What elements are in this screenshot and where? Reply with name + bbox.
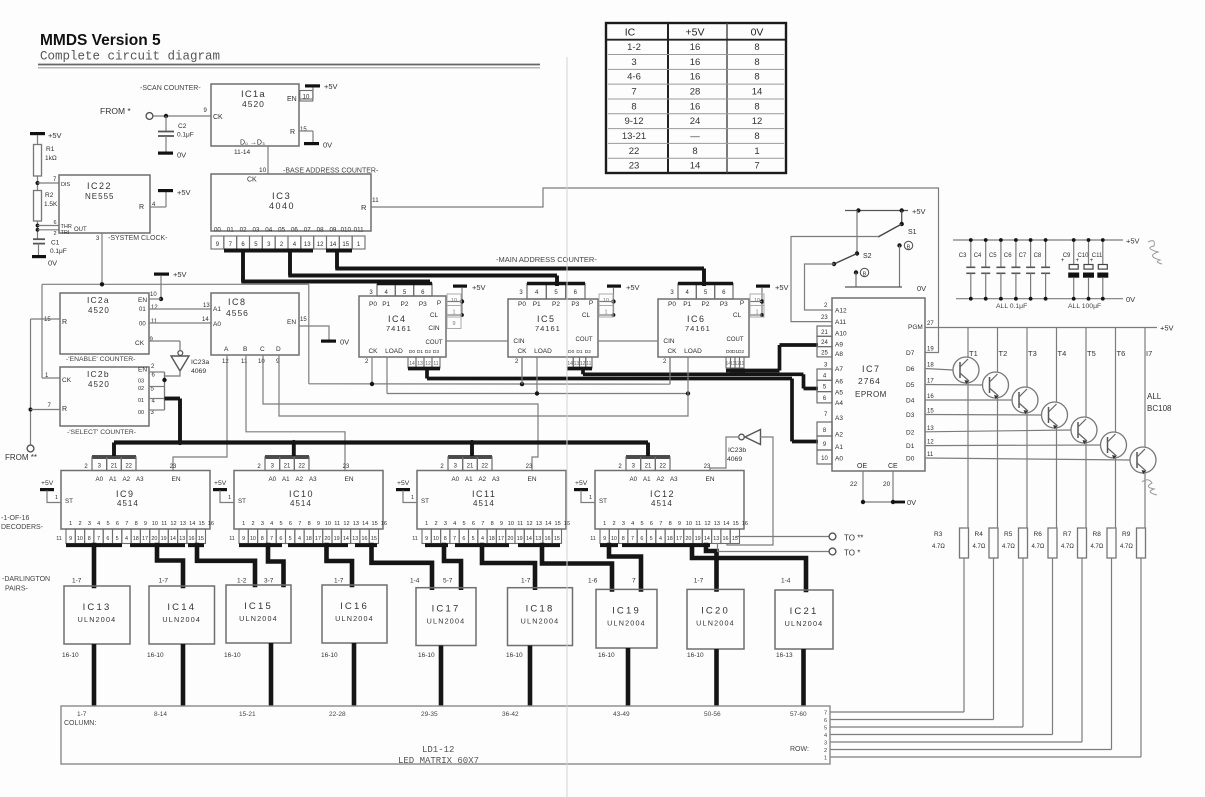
svg-text:CE: CE — [888, 463, 898, 470]
IC5 right pin boxes — [599, 294, 613, 317]
IC9 strobe +5V — [40, 480, 61, 503]
svg-text:22: 22 — [481, 464, 488, 470]
svg-text:14: 14 — [409, 361, 415, 367]
bus IC3 to IC5 P inputs — [262, 250, 557, 286]
svg-text:12: 12 — [222, 359, 229, 365]
svg-text:+5V: +5V — [397, 480, 410, 487]
IC20 ULN2004 darlington driver — [687, 578, 744, 660]
wire IC22 R pin4 to +5V — [150, 188, 191, 207]
svg-text:5: 5 — [472, 536, 475, 542]
svg-text:4: 4 — [824, 733, 827, 739]
svg-text:5: 5 — [280, 521, 283, 527]
svg-text:10: 10 — [603, 298, 609, 304]
svg-text:4520: 4520 — [242, 99, 265, 109]
svg-text:18: 18 — [133, 536, 139, 542]
svg-text:11-14: 11-14 — [234, 149, 251, 156]
IC9 output pin boxes — [56, 529, 205, 544]
svg-text:C11: C11 — [1092, 253, 1103, 259]
svg-text:0.1μF: 0.1μF — [50, 248, 67, 255]
IC6 +5V pull-up on P/CL — [749, 283, 789, 317]
svg-text:A1: A1 — [643, 476, 651, 483]
IC10 A input pin boxes — [257, 457, 350, 471]
capacitor C8 0.1uF — [1034, 238, 1051, 301]
switch +5V rail — [845, 207, 926, 216]
svg-text:8: 8 — [622, 536, 625, 542]
svg-text:C4: C4 — [974, 253, 982, 259]
capacitor C4 0.1uF — [974, 238, 991, 301]
svg-text:4: 4 — [481, 536, 484, 542]
IC11 output pin boxes — [412, 529, 561, 544]
svg-text:11: 11 — [151, 319, 158, 325]
svg-text:CL: CL — [733, 312, 742, 319]
svg-text:CK: CK — [213, 114, 223, 121]
trunk IC10 outputs to IC17 left — [355, 545, 432, 588]
svg-text:4514: 4514 — [651, 499, 673, 508]
svg-text:1: 1 — [242, 521, 245, 527]
svg-text:8: 8 — [692, 146, 697, 157]
transistor +5V rail — [925, 324, 1174, 333]
svg-text:IC19: IC19 — [612, 605, 641, 616]
svg-text:+5V: +5V — [626, 283, 640, 292]
svg-text:4514: 4514 — [290, 499, 312, 508]
switch S1 B contact — [897, 241, 912, 287]
svg-text:R2: R2 — [45, 192, 54, 199]
svg-text:16: 16 — [723, 536, 729, 542]
svg-text:D3: D3 — [906, 412, 915, 419]
svg-text:4069: 4069 — [727, 456, 742, 463]
svg-text:7: 7 — [632, 578, 636, 585]
svg-text:25: 25 — [821, 350, 828, 356]
IC7 PGM pin 27 — [908, 321, 934, 331]
svg-text:7: 7 — [298, 521, 301, 527]
column group labels — [77, 711, 807, 718]
capacitor C11 100uF electrolytic — [1090, 238, 1109, 301]
svg-text:4.7Ω: 4.7Ω — [932, 544, 945, 550]
svg-text:C6: C6 — [1004, 253, 1012, 259]
svg-text:A: A — [224, 346, 229, 353]
svg-text:C: C — [260, 346, 265, 353]
svg-text:21: 21 — [821, 330, 828, 336]
svg-text:0V: 0V — [907, 498, 916, 507]
svg-text:4.7Ω: 4.7Ω — [973, 544, 986, 550]
svg-text:12: 12 — [425, 361, 431, 367]
svg-text:P3: P3 — [419, 301, 427, 308]
svg-text:P: P — [740, 300, 744, 307]
svg-text:10: 10 — [508, 521, 514, 527]
svg-text:14: 14 — [704, 536, 710, 542]
svg-text:20: 20 — [685, 536, 691, 542]
bus IC3 to IC4 P inputs — [224, 250, 430, 282]
svg-text:P2: P2 — [401, 301, 409, 308]
svg-text:D: D — [276, 346, 281, 353]
svg-text:8: 8 — [754, 131, 759, 142]
transistor labels T1-T7 — [969, 349, 1152, 358]
svg-text:IC5: IC5 — [537, 314, 556, 324]
svg-text:LOAD: LOAD — [534, 348, 552, 355]
svg-text:A3: A3 — [835, 415, 843, 422]
svg-text:4: 4 — [97, 521, 100, 527]
IC4 D output pin boxes — [408, 357, 440, 368]
svg-text:CK: CK — [62, 377, 72, 384]
svg-text:29-35: 29-35 — [421, 711, 438, 718]
svg-text:P0: P0 — [668, 301, 676, 308]
svg-text:10: 10 — [433, 536, 439, 542]
svg-text:1-7: 1-7 — [159, 578, 169, 585]
svg-text:22: 22 — [850, 481, 858, 488]
terminal FROM ** — [5, 445, 37, 462]
svg-text:13: 13 — [535, 536, 541, 542]
resistor R1 1k — [34, 145, 57, 177]
svg-text:FROM *: FROM * — [100, 106, 131, 116]
wire IC8 D to counter LOAD net — [279, 356, 688, 417]
svg-text:12: 12 — [526, 521, 532, 527]
svg-text:3-7: 3-7 — [264, 578, 274, 585]
svg-text:14: 14 — [545, 521, 551, 527]
svg-text:+5V: +5V — [324, 82, 338, 91]
svg-text:-SCAN COUNTER-: -SCAN COUNTER- — [140, 85, 201, 92]
svg-text:D3: D3 — [433, 349, 440, 355]
scribble mark near T7 — [1142, 480, 1157, 495]
svg-text:21: 21 — [111, 464, 118, 470]
svg-text:10: 10 — [821, 456, 828, 462]
svg-text:D2: D2 — [585, 349, 592, 355]
wire IC2a D0 to IC8 A0 — [149, 317, 211, 323]
IC6 right pin boxes — [750, 294, 764, 317]
IC22 NE555 system clock — [59, 175, 168, 242]
+5V supply for R1 — [30, 131, 62, 145]
svg-text:10: 10 — [152, 521, 158, 527]
svg-text:P: P — [437, 300, 441, 307]
svg-text:4: 4 — [659, 536, 662, 542]
svg-text:22-28: 22-28 — [329, 711, 346, 718]
svg-text:I7: I7 — [1146, 349, 1152, 358]
svg-text:IC15: IC15 — [244, 601, 273, 612]
svg-text:A1: A1 — [213, 306, 221, 313]
svg-text:R: R — [361, 203, 367, 212]
svg-text:S2: S2 — [863, 253, 872, 260]
svg-text:14: 14 — [189, 521, 195, 527]
IC5 CK pin stub — [515, 357, 522, 385]
svg-text:6: 6 — [650, 521, 653, 527]
svg-text:1: 1 — [754, 146, 759, 157]
wire IC23b input from IC12 output 14 — [727, 437, 773, 545]
svg-text:LED MATRIX 60X7: LED MATRIX 60X7 — [398, 756, 479, 766]
svg-text:+5V: +5V — [472, 283, 486, 292]
svg-text:28: 28 — [690, 87, 701, 98]
svg-text:19: 19 — [695, 536, 701, 542]
svg-text:5: 5 — [650, 536, 653, 542]
svg-text:12: 12 — [343, 521, 349, 527]
IC10 output pin boxes — [229, 529, 378, 544]
svg-text:00: 00 — [138, 410, 144, 416]
svg-text:18: 18 — [927, 363, 934, 369]
IC7 address pin boxes 21 24 25 — [817, 326, 832, 357]
svg-text:D₀ →D₃: D₀ →D₃ — [240, 140, 265, 147]
svg-text:IC21: IC21 — [790, 606, 819, 617]
svg-text:P2: P2 — [552, 301, 560, 308]
svg-text:8: 8 — [754, 42, 759, 53]
svg-text:3: 3 — [444, 521, 447, 527]
IC16 ULN2004 darlington driver — [321, 578, 387, 660]
capacitor C10 100uF electrolytic — [1076, 238, 1095, 301]
svg-text:4: 4 — [125, 536, 128, 542]
svg-text:06: 06 — [291, 227, 298, 234]
svg-text:6: 6 — [116, 521, 119, 527]
svg-text:43-49: 43-49 — [613, 711, 630, 718]
svg-text:9: 9 — [678, 521, 681, 527]
svg-text:23: 23 — [170, 464, 177, 470]
svg-text:17: 17 — [498, 536, 504, 542]
svg-text:13: 13 — [203, 303, 210, 309]
svg-text:16-10: 16-10 — [598, 652, 615, 659]
svg-text:CK: CK — [517, 348, 527, 355]
svg-text:EN: EN — [171, 476, 180, 483]
counter clock line junctions — [370, 357, 670, 386]
svg-text:36-42: 36-42 — [502, 711, 519, 718]
svg-text:10: 10 — [77, 536, 83, 542]
svg-text:11: 11 — [433, 361, 438, 367]
svg-text:0.1μF: 0.1μF — [177, 132, 194, 139]
svg-text:11: 11 — [517, 521, 523, 527]
svg-text:IC6: IC6 — [687, 314, 706, 324]
svg-text:R4: R4 — [975, 531, 984, 538]
svg-text:T2: T2 — [999, 349, 1008, 358]
svg-text:D7: D7 — [906, 350, 915, 357]
svg-text:+5V: +5V — [41, 480, 54, 487]
IC18 output trunk to LED matrix — [528, 646, 533, 707]
svg-text:5: 5 — [289, 536, 292, 542]
svg-text:7: 7 — [270, 536, 273, 542]
svg-text:1-6: 1-6 — [588, 578, 598, 585]
label 1-of-16 decoders — [1, 515, 44, 531]
IC power pin table — [606, 23, 786, 173]
svg-text:14: 14 — [330, 242, 337, 248]
IC16 output trunk to LED matrix — [352, 643, 357, 706]
svg-text:A7: A7 — [835, 366, 843, 373]
transistor T7 BC108 — [1130, 328, 1156, 529]
svg-text:11: 11 — [161, 521, 167, 527]
svg-text:D0: D0 — [568, 349, 575, 355]
svg-text:15: 15 — [732, 521, 738, 527]
svg-text:A0: A0 — [835, 456, 843, 463]
svg-text:1: 1 — [425, 521, 428, 527]
IC2b output stubs to select bus — [149, 372, 167, 410]
svg-text:EPROM: EPROM — [855, 390, 887, 399]
IC2a 4520 enable counter — [44, 292, 158, 354]
svg-text:6: 6 — [106, 536, 109, 542]
svg-text:7: 7 — [659, 521, 662, 527]
svg-text:LOAD: LOAD — [684, 348, 702, 355]
0V under C2 — [158, 152, 173, 155]
svg-text:OUT: OUT — [74, 227, 87, 233]
svg-text:15: 15 — [300, 127, 307, 133]
trunk IC10 outputs to IC16 — [288, 545, 352, 585]
svg-text:DIS: DIS — [61, 182, 71, 188]
svg-text:02: 02 — [240, 227, 247, 234]
svg-text:14: 14 — [567, 361, 573, 367]
label darlington pairs — [2, 576, 50, 593]
svg-text:C1: C1 — [51, 240, 60, 247]
resistor R2 1.5k — [34, 191, 59, 222]
capacitor C1 0.1uF — [33, 239, 67, 255]
svg-text:10: 10 — [250, 536, 256, 542]
svg-text:C9: C9 — [1063, 253, 1071, 259]
svg-text:0V: 0V — [917, 284, 926, 293]
svg-text:14: 14 — [343, 536, 349, 542]
svg-text:1: 1 — [604, 310, 607, 316]
capacitor C5 0.1uF — [989, 238, 1006, 301]
svg-text:P3: P3 — [571, 301, 579, 308]
svg-text:+5V: +5V — [1160, 324, 1174, 333]
svg-text:R3: R3 — [934, 531, 943, 538]
svg-text:5: 5 — [116, 536, 119, 542]
svg-text:R6: R6 — [1034, 531, 1043, 538]
svg-text:7: 7 — [97, 536, 100, 542]
svg-text:ULN2004: ULN2004 — [521, 617, 560, 626]
svg-text:D1: D1 — [906, 443, 915, 450]
svg-text:17: 17 — [676, 536, 682, 542]
svg-text:5: 5 — [641, 521, 644, 527]
IC10 4514 decoder — [234, 471, 387, 530]
IC4 P input pin boxes — [369, 284, 432, 297]
svg-text:0V: 0V — [340, 338, 349, 347]
svg-text:00: 00 — [139, 322, 146, 328]
svg-text:+5V: +5V — [177, 188, 191, 197]
svg-text:19: 19 — [927, 347, 934, 353]
svg-text:7: 7 — [453, 536, 456, 542]
wire IC23b output to IC12 EN — [710, 437, 739, 471]
wire IC2a CK from IC23a — [149, 340, 180, 342]
svg-text:12: 12 — [317, 242, 324, 248]
switch S1 — [878, 211, 917, 238]
IC18 ULN2004 darlington driver — [506, 578, 573, 660]
svg-text:S1: S1 — [908, 229, 917, 236]
svg-text:8: 8 — [135, 521, 138, 527]
IC3 output labels D0-D11 — [214, 227, 364, 234]
svg-text:D0: D0 — [906, 456, 915, 463]
switch 0V rail — [845, 284, 926, 293]
svg-text:11: 11 — [229, 536, 235, 542]
decoupling 0V rail — [956, 295, 1135, 304]
svg-text:4514: 4514 — [473, 499, 495, 508]
svg-text:24: 24 — [821, 340, 828, 346]
svg-text:7: 7 — [631, 536, 634, 542]
svg-text:13: 13 — [353, 521, 359, 527]
svg-text:R: R — [290, 129, 295, 136]
svg-text:11: 11 — [590, 536, 596, 542]
svg-text:20: 20 — [883, 481, 891, 488]
IC4 CK pin stub — [365, 357, 372, 385]
svg-text:4069: 4069 — [191, 368, 206, 375]
svg-text:R: R — [139, 204, 144, 211]
svg-text:16-10: 16-10 — [687, 652, 704, 659]
svg-text:+5V: +5V — [775, 283, 789, 292]
svg-text:23: 23 — [629, 161, 640, 172]
svg-text:16: 16 — [690, 57, 701, 68]
svg-text:10: 10 — [150, 292, 157, 298]
svg-text:03: 03 — [138, 379, 144, 385]
svg-text:11: 11 — [412, 536, 418, 542]
svg-text:ULN2004: ULN2004 — [78, 615, 117, 624]
svg-text:3: 3 — [622, 521, 625, 527]
svg-text:13: 13 — [352, 536, 358, 542]
svg-text:A11: A11 — [835, 319, 846, 326]
svg-text:9: 9 — [69, 536, 72, 542]
svg-text:13: 13 — [536, 521, 542, 527]
svg-text:16: 16 — [690, 72, 701, 83]
svg-text:1-7: 1-7 — [521, 578, 531, 585]
svg-text:12: 12 — [704, 521, 710, 527]
capacitor C7 0.1uF — [1019, 238, 1036, 301]
inverter IC23a 4069 — [165, 341, 210, 376]
svg-text:15: 15 — [300, 317, 307, 323]
wires R2 to THR TRI pins — [36, 220, 59, 239]
svg-text:CK: CK — [247, 177, 257, 184]
svg-text:1: 1 — [603, 521, 606, 527]
svg-text:09: 09 — [329, 227, 336, 234]
svg-text:8: 8 — [754, 101, 759, 112]
IC19 ULN2004 darlington driver — [588, 578, 657, 660]
svg-text:18: 18 — [489, 536, 495, 542]
svg-text:COUT: COUT — [426, 340, 443, 346]
svg-text:A0: A0 — [630, 476, 638, 483]
svg-text:10: 10 — [686, 521, 692, 527]
svg-text:C2: C2 — [178, 123, 187, 130]
svg-text:EN: EN — [138, 297, 147, 304]
svg-text:D6: D6 — [906, 366, 915, 373]
svg-text:00: 00 — [214, 227, 221, 234]
svg-text:4.7Ω: 4.7Ω — [1032, 544, 1045, 550]
svg-text:7: 7 — [824, 711, 827, 717]
svg-text:8: 8 — [308, 521, 311, 527]
svg-text:A2: A2 — [296, 476, 304, 483]
IC11 4514 decoder — [417, 471, 570, 530]
svg-text:9: 9 — [425, 536, 428, 542]
svg-text:MMDS Version 5: MMDS Version 5 — [40, 32, 161, 49]
svg-text:P1: P1 — [382, 301, 390, 308]
svg-text:TRI: TRI — [61, 230, 70, 236]
svg-text:R7: R7 — [1063, 531, 1072, 538]
svg-text:22: 22 — [629, 146, 640, 157]
svg-text:0V: 0V — [1126, 295, 1135, 304]
svg-text:CK: CK — [667, 348, 677, 355]
svg-text:20: 20 — [151, 536, 157, 542]
svg-text:15: 15 — [198, 521, 204, 527]
svg-text:13: 13 — [179, 536, 185, 542]
svg-text:74161: 74161 — [685, 324, 711, 333]
svg-text:C7: C7 — [1019, 253, 1027, 259]
svg-text:4: 4 — [270, 521, 273, 527]
IC14 output trunk to LED matrix — [181, 644, 186, 706]
IC15 output trunk to LED matrix — [269, 643, 274, 706]
svg-text:P: P — [589, 300, 593, 307]
svg-text:74161: 74161 — [535, 324, 561, 333]
IC2b 4520 select counter — [48, 364, 156, 426]
IC6 D output labels — [726, 349, 745, 355]
svg-text:7: 7 — [125, 521, 128, 527]
svg-text:18: 18 — [667, 536, 673, 542]
svg-text:A2: A2 — [835, 432, 843, 439]
svg-text:-MAIN ADDRESS COUNTER-: -MAIN ADDRESS COUNTER- — [496, 255, 597, 264]
svg-text:IC10: IC10 — [289, 489, 314, 499]
svg-text:P0: P0 — [369, 301, 377, 308]
svg-text:4.7Ω: 4.7Ω — [1120, 544, 1133, 550]
svg-text:+5V: +5V — [575, 480, 588, 487]
+5V for IC2a EN — [154, 270, 187, 301]
svg-text:D1: D1 — [576, 349, 583, 355]
svg-text:1-7: 1-7 — [334, 578, 344, 585]
bus IC5 outputs to EPROM A7-A4 — [567, 368, 818, 389]
